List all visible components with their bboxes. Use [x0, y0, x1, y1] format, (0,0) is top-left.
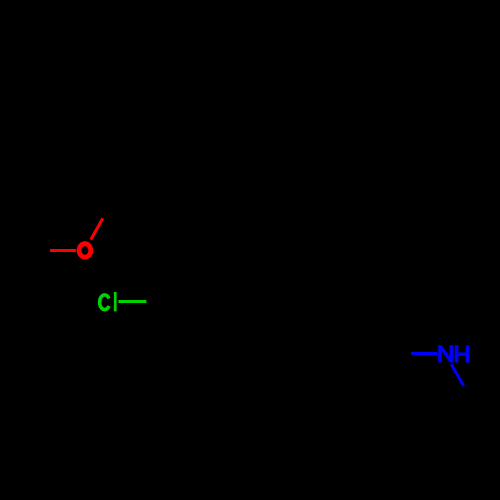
atom label H : crossbar [458, 353, 467, 356]
bond O-CH3 (red half, horizontal) [50, 249, 76, 252]
atom label N : right bar [450, 345, 454, 362]
atom label Cl : letter l (bar) [114, 292, 117, 312]
atom label O (ether oxygen) [79, 244, 91, 257]
bond C-N (blue half, horizontal) [411, 352, 437, 355]
bond O-ring (red half, diagonal) [91, 218, 103, 239]
atom label N : left bar [438, 345, 442, 362]
atom label H : right bar [466, 345, 470, 362]
atom label Cl : letter C (arc) [100, 295, 109, 310]
atom label N : diagonal [441, 347, 451, 362]
bond N-CH3 (blue half, diagonal) [451, 364, 463, 386]
bond Cl-ring (green half, horizontal) [118, 300, 146, 303]
atom label H : left bar [455, 345, 459, 362]
